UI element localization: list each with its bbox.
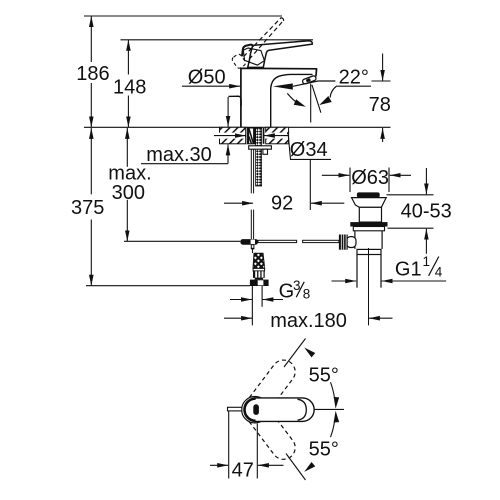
label 22 deg with leader	[319, 67, 371, 105]
dimension 375	[71, 128, 104, 286]
svg-text:55°: 55°	[309, 439, 339, 461]
hose ribbed section	[253, 271, 265, 278]
hose collar band	[253, 268, 265, 271]
drain body	[359, 207, 381, 222]
arc segment upper	[331, 382, 335, 398]
line at hose nut level	[86, 285, 250, 287]
drain plug cap	[357, 192, 380, 197]
G3/8 pipe	[252, 286, 262, 325]
rod stub below clamp	[251, 245, 254, 253]
aerator outlet (22 deg tilt)	[302, 75, 317, 84]
svg-text:22°: 22°	[339, 67, 369, 89]
knurled knob	[339, 235, 348, 250]
svg-text:55°: 55°	[309, 364, 339, 386]
22 deg reference vertical	[310, 84, 312, 123]
center line right of capsule	[314, 408, 344, 410]
dark bar right side of hole	[263, 128, 265, 144]
hose nut	[250, 280, 269, 286]
water stream arrow	[273, 81, 336, 90]
svg-text:8: 8	[303, 286, 311, 301]
drain collar	[357, 249, 381, 254]
arc segment lower	[331, 421, 335, 437]
lever base raised (dashed)	[231, 53, 247, 69]
counter slab hatched right block	[266, 127, 289, 144]
line at pop-up rod level	[124, 240, 240, 242]
hose dark band	[255, 278, 263, 280]
extension line top (lever raised tip level)	[84, 15, 282, 17]
drain flange	[352, 198, 387, 208]
55 deg extension lower	[286, 454, 306, 481]
svg-text:G1: G1	[395, 259, 422, 281]
svg-text:375: 375	[71, 197, 104, 219]
counter top line	[84, 126, 391, 128]
svg-text:78: 78	[369, 94, 391, 116]
55 deg extension upper	[284, 339, 306, 368]
swivel arc left	[287, 93, 306, 106]
label G3/8	[230, 278, 310, 303]
svg-text:186: 186	[76, 63, 109, 85]
horizontal linkage rod	[258, 240, 339, 242]
svg-text:G: G	[279, 281, 295, 303]
locknut second tier	[353, 227, 384, 231]
counter slab hatched left block	[220, 127, 246, 144]
svg-text:300: 300	[112, 182, 145, 204]
dimension max.30	[141, 97, 228, 166]
step nut under washer	[263, 149, 268, 154]
22 deg tilted line	[312, 85, 321, 113]
extension line lever top level	[121, 39, 314, 41]
pop-up rod clamp	[240, 239, 258, 245]
Ø34 drop extension	[309, 159, 311, 210]
solid lever arm	[248, 41, 313, 68]
dimension 47	[210, 412, 284, 482]
drain: Ø63 dimension	[322, 167, 411, 192]
dark pill mark	[253, 404, 259, 415]
lever rotated down (dashed)	[238, 393, 300, 464]
svg-text:148: 148	[113, 76, 146, 98]
pop-up rod (vertical)	[251, 149, 253, 239]
lever rotated up (dashed)	[238, 355, 300, 426]
svg-text:Ø50: Ø50	[188, 67, 226, 89]
dimension 78	[369, 54, 391, 143]
mounting wedge in hole	[247, 128, 255, 144]
ball joint housing	[347, 237, 357, 248]
drain lower body walls	[355, 231, 382, 249]
Ø34 label with leader	[214, 136, 331, 162]
drain tailpipe	[357, 255, 381, 288]
dimension 148	[113, 40, 146, 128]
threaded stud (checkered)	[256, 128, 262, 186]
svg-text:40-53: 40-53	[401, 200, 452, 222]
drain locknut	[350, 222, 387, 226]
body circle (top view)	[242, 397, 268, 423]
dimension 40-53	[387, 168, 452, 254]
inner cap arc right	[298, 399, 307, 420]
svg-text:4: 4	[435, 264, 443, 279]
thick crescent left cap	[245, 399, 256, 421]
dimension max.300	[108, 128, 151, 241]
svg-text:92: 92	[271, 193, 293, 215]
pull rod tab (top view)	[228, 407, 242, 411]
dimension max.180	[224, 310, 393, 332]
lever capsule (top view)	[242, 398, 314, 422]
svg-text:max.180: max.180	[270, 310, 347, 332]
lever base thin outline	[243, 48, 264, 65]
faucet body column and spout	[241, 68, 317, 127]
svg-text:Ø34: Ø34	[290, 139, 328, 161]
svg-text:max.30: max.30	[146, 144, 212, 166]
svg-text:1: 1	[423, 254, 431, 269]
dimension Ø50	[182, 67, 240, 89]
braided supply hose	[253, 253, 265, 268]
arrowheads on arc	[302, 345, 339, 474]
pull-rod hook on faucet body	[228, 96, 241, 106]
drain center line	[368, 248, 370, 325]
lever pivot (thick outline)	[242, 45, 253, 56]
label G1 1/4	[332, 254, 447, 281]
svg-text:47: 47	[232, 460, 254, 482]
svg-text:Ø63: Ø63	[351, 167, 389, 189]
dimension 186	[76, 16, 109, 127]
washer under counter	[249, 146, 272, 149]
dimension 92	[224, 193, 344, 215]
lever raised position (dashed)	[244, 18, 284, 60]
